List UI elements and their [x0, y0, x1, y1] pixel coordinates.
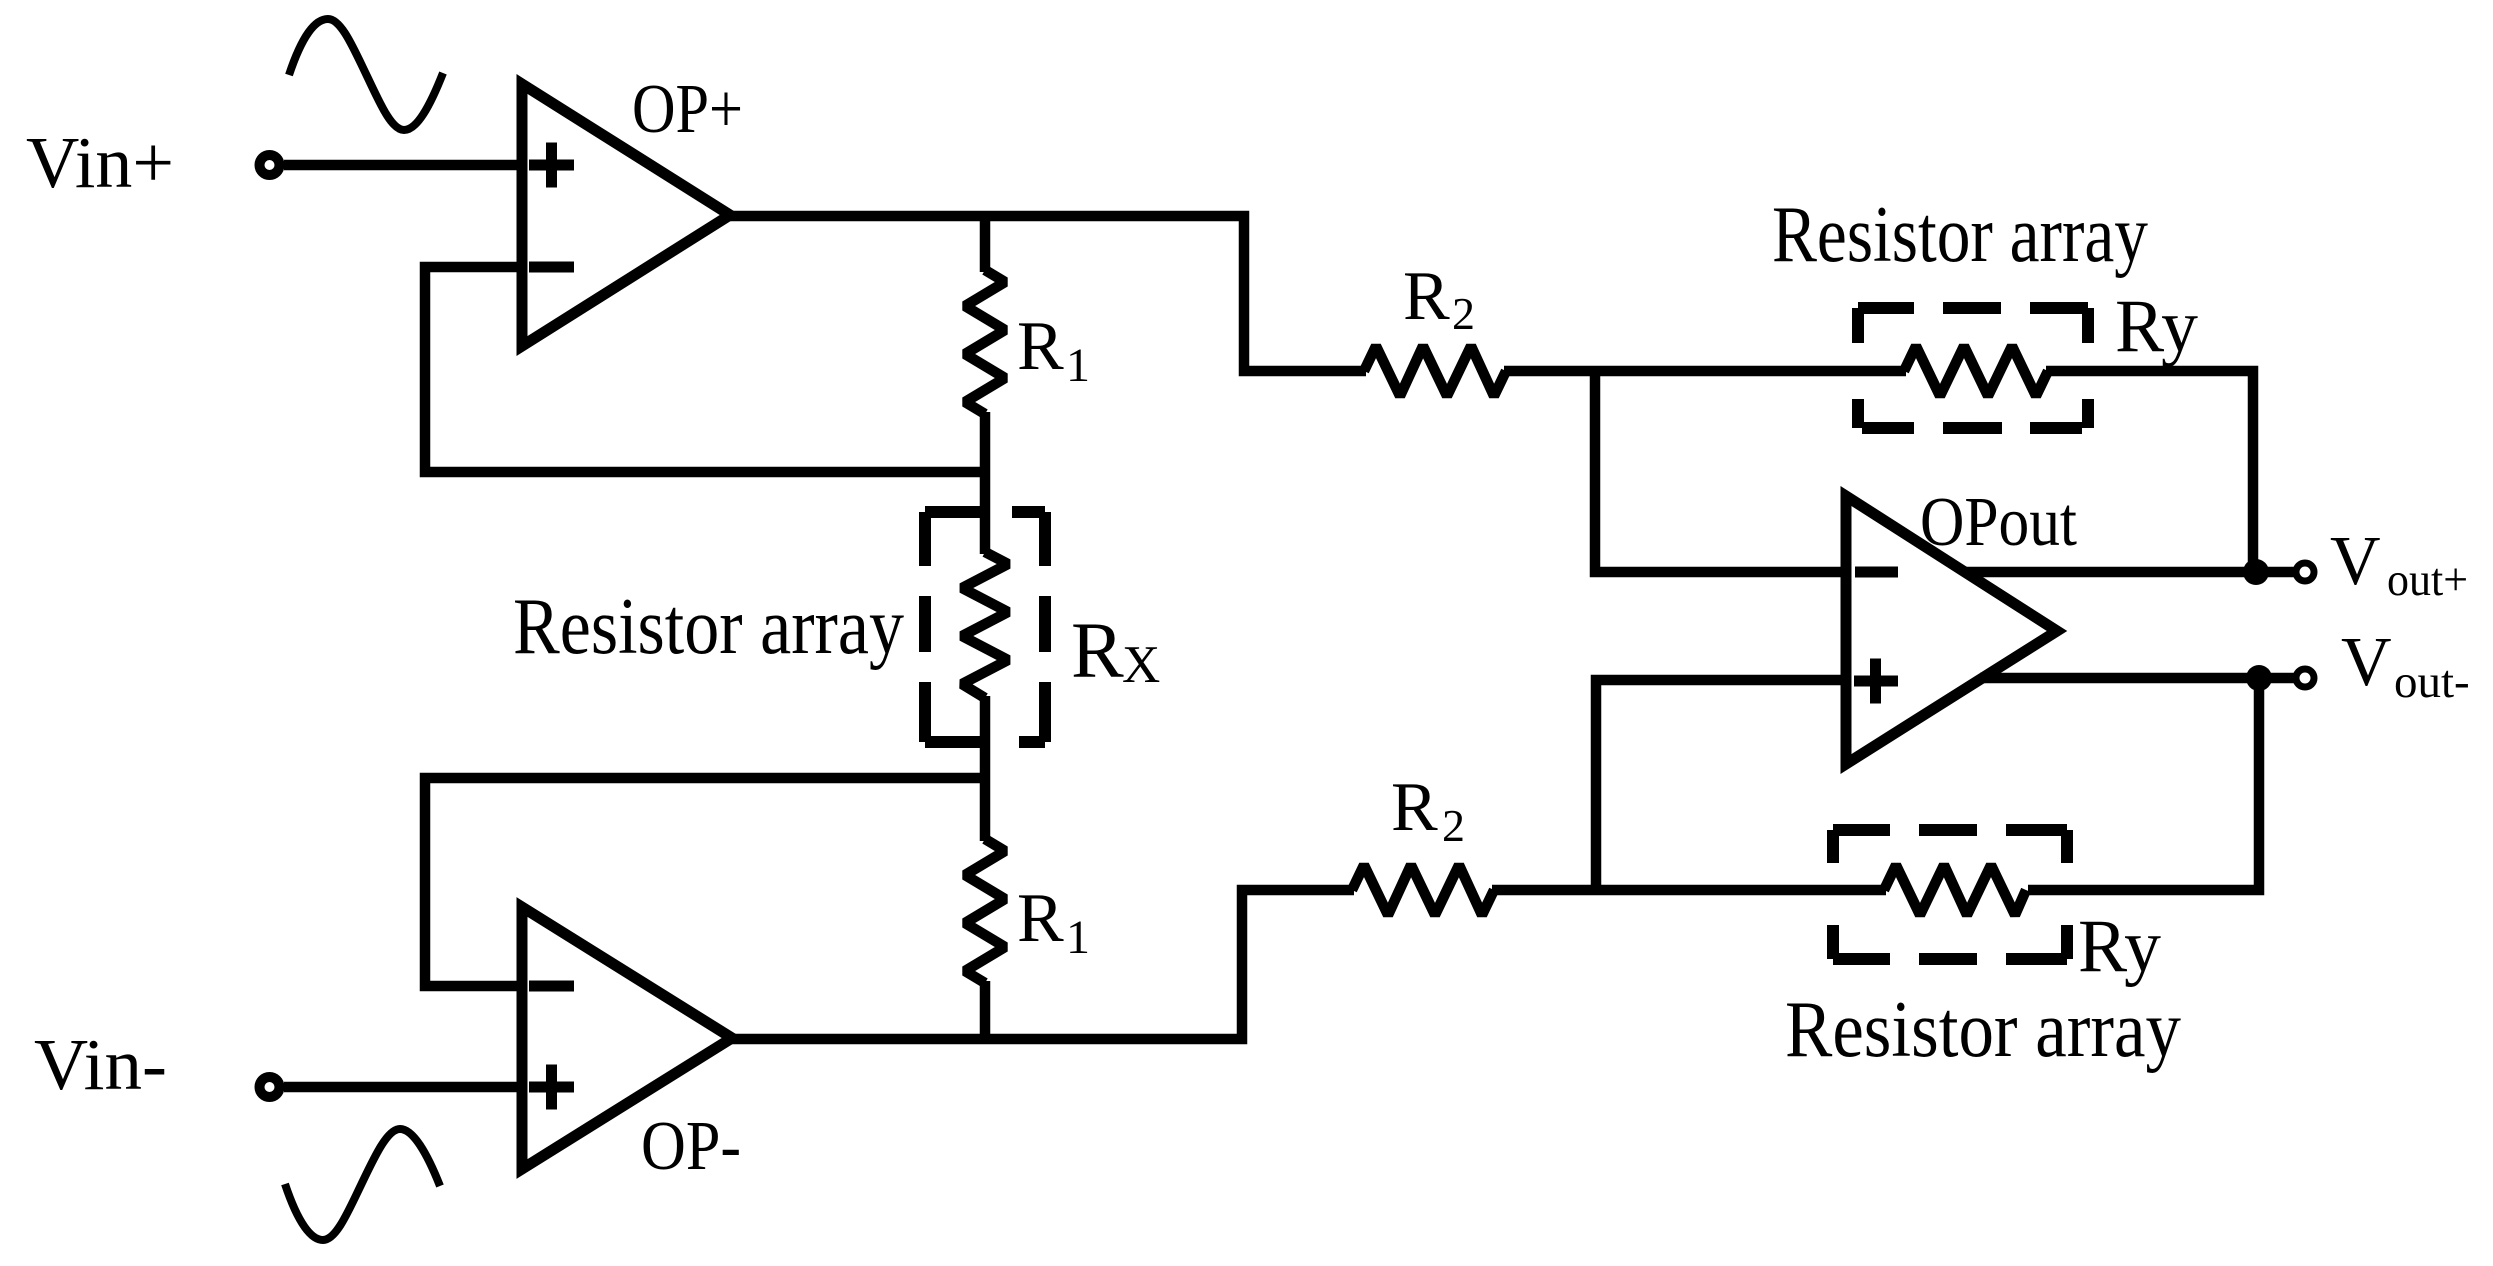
svg-text:2: 2	[1452, 288, 1475, 339]
op-amp OP-	[522, 907, 732, 1169]
svg-text:OPout: OPout	[1920, 484, 2077, 561]
ac source sine (top, at Vin+)	[289, 19, 443, 130]
junction dot Vout-	[2246, 665, 2272, 691]
svg-text:2: 2	[1442, 800, 1465, 851]
OP+ minus input mark	[529, 262, 574, 273]
OPout minus input mark	[1855, 567, 1898, 578]
terminal Vin+	[260, 155, 280, 175]
wire OP+ output rail with R2 top and Ry top to Vout+ node	[730, 216, 1366, 371]
wire Vout+ output	[1965, 567, 2297, 578]
dashed box resistor array Ry bottom	[1833, 830, 2067, 959]
wire Vout- output	[1980, 673, 2297, 684]
OP+ plus input mark	[529, 143, 574, 188]
op-amp OP+	[522, 84, 730, 346]
svg-text:R: R	[1391, 769, 1438, 846]
ac source sine (bottom, at Vin-)	[285, 1129, 440, 1240]
svg-text:OP+: OP+	[632, 71, 743, 148]
junction dot Vout+	[2243, 559, 2269, 585]
wire OP+ feedback (inverting input to R1 top node)	[425, 267, 985, 472]
svg-text:R: R	[1017, 880, 1064, 957]
svg-text:Resistor array: Resistor array	[1785, 986, 2181, 1074]
svg-text:R: R	[1403, 258, 1450, 335]
wire Vin- to OP- noninverting input	[284, 1082, 522, 1093]
wire Vout- feedback rail with Ry bottom and R2 bottom	[2028, 678, 2259, 890]
svg-text:Ry: Ry	[2115, 285, 2198, 368]
terminal Vout+	[2296, 563, 2314, 581]
wire OPout inverting input branch from R2 top node	[1595, 371, 1846, 572]
OP- minus input mark	[529, 981, 574, 992]
svg-text:Resistor array: Resistor array	[1772, 191, 2148, 279]
svg-text:V: V	[2330, 523, 2381, 600]
dashed box resistor array Ry top	[1858, 308, 2088, 428]
svg-text:X: X	[1122, 636, 1160, 694]
svg-text:R: R	[1017, 308, 1064, 385]
terminal Vout-	[2296, 669, 2314, 687]
OP- plus input mark	[529, 1065, 574, 1110]
svg-text:Vin+: Vin+	[26, 122, 174, 203]
terminal Vin-	[260, 1077, 280, 1097]
OPout plus input mark	[1854, 659, 1898, 704]
wire OPout noninverting input branch from R2 bottom node	[1596, 680, 1846, 890]
op-amp OPout	[1846, 496, 2057, 764]
svg-text:1: 1	[1066, 911, 1090, 964]
svg-text:V: V	[2341, 624, 2392, 701]
svg-text:Vin-: Vin-	[34, 1024, 167, 1105]
svg-text:out+: out+	[2387, 554, 2468, 606]
wire Vin+ to OP+ noninverting input	[284, 160, 522, 171]
svg-text:Resistor array: Resistor array	[513, 583, 904, 671]
svg-text:OP-: OP-	[641, 1108, 741, 1185]
svg-text:1: 1	[1066, 339, 1090, 392]
svg-text:R: R	[1071, 608, 1124, 695]
dashed box resistor array Rx	[925, 512, 1045, 742]
wire center vertical with resistors R1, Rx, R1	[980, 216, 991, 272]
svg-text:Ry: Ry	[2078, 905, 2161, 988]
svg-text:out-: out-	[2394, 656, 2470, 708]
wire OP- feedback (inverting input to Rx bottom node)	[425, 778, 985, 986]
